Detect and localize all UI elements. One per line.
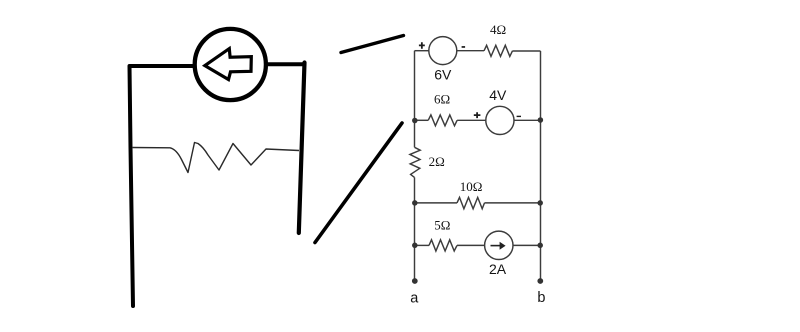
left rail lower xyxy=(414,177,416,281)
resistor 10ohm xyxy=(457,197,485,208)
resistor 2ohm (vertical) xyxy=(410,147,420,177)
svg-text:2A: 2A xyxy=(489,261,507,277)
row3 wire right xyxy=(485,202,541,204)
row4 wire mid xyxy=(457,244,484,246)
polarity 6V minus xyxy=(462,46,466,48)
svg-text:6Ω: 6Ω xyxy=(434,92,450,107)
junction dots xyxy=(412,117,543,284)
pointer line long xyxy=(315,123,402,243)
node row2 left xyxy=(412,118,418,124)
right rail xyxy=(540,51,542,281)
node row2 right xyxy=(538,117,544,123)
row2 wire mid xyxy=(457,119,486,121)
current source arrow xyxy=(491,245,501,247)
row4 wire right xyxy=(513,244,541,246)
node row3 right xyxy=(537,200,543,206)
terminal a dot xyxy=(412,278,418,284)
svg-text:4Ω: 4Ω xyxy=(490,22,506,37)
resistor 4ohm xyxy=(484,45,513,56)
current source circle (hand-drawn) xyxy=(195,29,266,100)
row3 wire left xyxy=(415,202,458,204)
wire right vertical (slanted) xyxy=(299,63,305,234)
top row wire mid xyxy=(457,50,484,52)
node row3 left xyxy=(412,200,418,206)
svg-text:b: b xyxy=(537,290,545,306)
wire left vertical + top horizontal xyxy=(130,66,195,306)
voltage source V2 4V xyxy=(486,106,514,134)
row2 wire left xyxy=(415,119,429,121)
svg-text:4V: 4V xyxy=(489,87,507,103)
svg-text:2Ω: 2Ω xyxy=(429,154,445,169)
polarity 6V plus xyxy=(419,42,425,49)
node row4 left xyxy=(412,243,418,249)
voltage source V1 6V xyxy=(429,37,457,65)
pointer line short (top) xyxy=(341,36,404,53)
svg-text:5Ω: 5Ω xyxy=(434,217,450,232)
svg-text:a: a xyxy=(410,290,419,306)
svg-text:10Ω: 10Ω xyxy=(460,179,483,194)
polarity 4V minus xyxy=(517,116,521,117)
block arrow inside circle xyxy=(205,49,251,80)
polarity 4V plus xyxy=(474,112,481,118)
row2 wire right xyxy=(514,119,541,121)
resistor squiggle (hand-drawn) xyxy=(132,143,299,173)
resistor 5ohm xyxy=(429,240,457,251)
top row wire right xyxy=(513,50,541,52)
terminal b dot xyxy=(537,278,543,284)
left rail upper xyxy=(414,51,416,148)
wire top right horizontal xyxy=(267,62,305,66)
top row wire left xyxy=(415,50,429,52)
node row4 right xyxy=(537,243,543,249)
row4 wire left xyxy=(415,244,430,246)
svg-text:6V: 6V xyxy=(434,67,452,83)
current source I1 2A xyxy=(485,231,513,259)
resistor 6ohm xyxy=(428,115,457,126)
